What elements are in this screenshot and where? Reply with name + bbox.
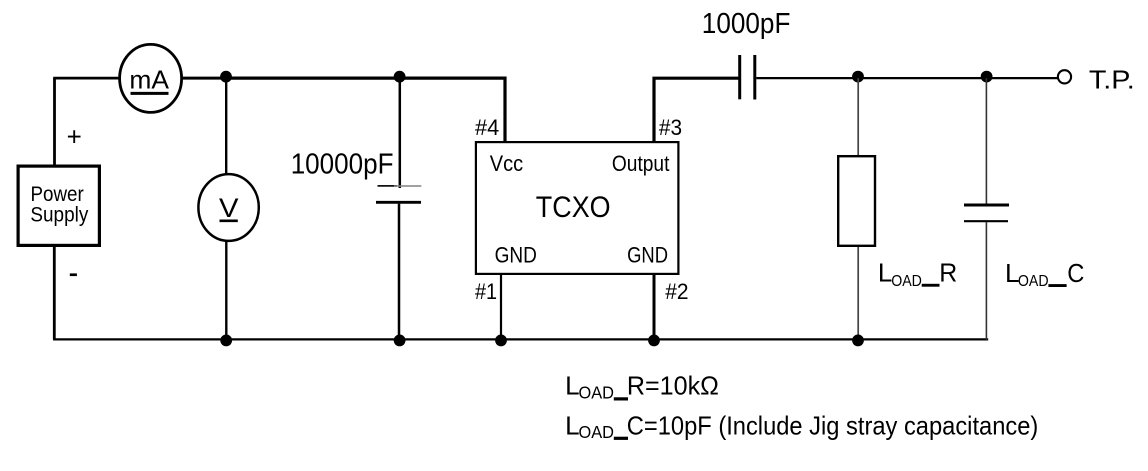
wire: down to load resistor — [857, 78, 859, 155]
power supply box — [18, 166, 99, 245]
svg-text:+: + — [67, 122, 82, 152]
capacitor C2 1000pF right plate — [753, 55, 756, 100]
resistor LOAD_R body — [838, 156, 875, 246]
label: pin #1 — [475, 279, 497, 304]
svg-text:OAD: OAD — [579, 382, 615, 402]
label: T.P. — [1089, 64, 1135, 94]
test point T.P. open circle — [1058, 70, 1071, 83]
svg-text:OAD: OAD — [1018, 273, 1049, 290]
svg-text:#2: #2 — [665, 279, 688, 304]
svg-text:C=10pF (Include Jig stray capa: C=10pF (Include Jig stray capacitance) — [627, 410, 1039, 440]
svg-text:#4: #4 — [475, 115, 499, 140]
capacitor C1 10000pF bottom plate — [376, 201, 421, 204]
capacitor LOAD_C bottom plate — [964, 220, 1008, 222]
voltmeter V — [198, 174, 258, 241]
node B junction dot on top rail — [394, 71, 406, 83]
svg-text:10000pF: 10000pF — [291, 149, 394, 181]
wire: pin #3 up and right to capacitor C2 — [654, 78, 739, 141]
label: LOAD_C value note line 2 — [565, 410, 1038, 442]
wire: node B down to capacitor C1 — [399, 78, 402, 188]
wire: down to load capacitor — [985, 78, 987, 204]
label: 1000pF value — [702, 8, 791, 40]
node: load R junction dot top — [852, 71, 864, 83]
svg-text:TCXO: TCXO — [536, 191, 611, 224]
label: LOAD_R value note line 1 — [565, 371, 719, 403]
label: - terminal — [70, 273, 77, 276]
svg-text:R=10kΩ: R=10kΩ — [627, 371, 719, 401]
svg-text:#1: #1 — [475, 279, 497, 304]
label: LOAD_C name — [1005, 258, 1084, 290]
svg-text:T.P.: T.P. — [1089, 64, 1135, 94]
svg-text:L: L — [565, 410, 579, 440]
svg-text:OAD: OAD — [891, 273, 922, 290]
svg-text:#3: #3 — [659, 115, 682, 140]
node: pin #1 junction dot — [495, 335, 507, 347]
svg-text:L: L — [565, 371, 579, 401]
capacitor C1 10000pF top plate — [378, 185, 422, 187]
svg-text:1000pF: 1000pF — [702, 8, 791, 40]
svg-text:R: R — [939, 258, 957, 288]
svg-text:OAD: OAD — [579, 422, 615, 442]
wire: top rail left to ammeter — [53, 77, 120, 80]
wire: load capacitor down to bottom rail corner — [986, 222, 987, 339]
wire: top rail node A to pin #4 corner — [226, 78, 505, 141]
wire: power supply - lead down to bottom rail — [53, 247, 56, 339]
wire: capacitor C2 to test point — [756, 77, 1058, 79]
wire: bottom rail — [53, 338, 988, 340]
node: pin #2 junction dot — [648, 335, 660, 347]
svg-text:GND: GND — [495, 243, 537, 268]
capacitor LOAD_C top plate — [964, 204, 1009, 207]
node: C1 branch junction on bottom rail — [394, 335, 406, 347]
TCXO U1 box — [476, 142, 679, 274]
svg-text:V: V — [219, 193, 239, 223]
wire: capacitor C1 down to bottom rail — [398, 204, 401, 340]
wire: node A down to voltmeter — [225, 78, 227, 175]
label: pin #2 — [665, 279, 688, 304]
svg-text:Vcc: Vcc — [490, 151, 523, 176]
node: V branch junction on bottom rail — [220, 335, 232, 347]
wire: voltmeter down to bottom rail — [225, 241, 227, 340]
wire: pin #1 down to bottom rail — [500, 275, 502, 339]
wire: pin #2 down to bottom rail — [653, 275, 656, 339]
node A junction dot — [220, 71, 232, 83]
svg-text:Output: Output — [612, 151, 670, 176]
wire: load resistor down to bottom rail — [857, 247, 859, 339]
label: LOAD_R name — [878, 258, 957, 290]
label: pin #4 — [475, 115, 499, 140]
wire: ammeter to node A — [182, 77, 226, 80]
ammeter mA — [120, 44, 182, 112]
wire: power supply + lead up — [53, 78, 56, 164]
label: + terminal — [67, 122, 82, 152]
svg-text:Supply: Supply — [30, 203, 88, 226]
svg-text:L: L — [878, 258, 892, 288]
label: 10000pF value — [291, 149, 394, 181]
label: pin #3 — [659, 115, 682, 140]
capacitor C2 1000pF left plate — [738, 55, 741, 99]
svg-text:mA: mA — [129, 65, 169, 95]
svg-text:C: C — [1067, 258, 1084, 288]
node: load R junction dot bottom — [852, 335, 864, 347]
node: load C junction dot top — [981, 71, 993, 83]
svg-text:GND: GND — [627, 243, 668, 268]
